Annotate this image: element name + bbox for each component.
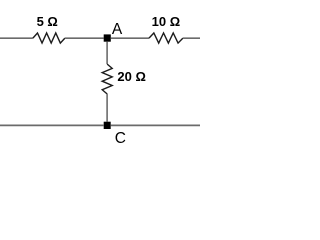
wire: node A down to R3 (106, 42, 108, 64)
resistor R3 20 ohm vertical zigzag (102, 64, 112, 94)
svg-text:5 Ω: 5 Ω (37, 14, 58, 29)
svg-text:20 Ω: 20 Ω (117, 69, 145, 84)
wire: top-left segment (0, 37, 33, 39)
wire: between R1 and node A (65, 37, 104, 39)
wire: R3 down to node C (106, 94, 108, 122)
svg-text:C: C (115, 130, 126, 147)
resistor R1 5 ohm zigzag (33, 33, 65, 43)
resistor R2 10 ohm zigzag (149, 33, 183, 43)
node C junction square (104, 122, 111, 129)
node A junction square (104, 34, 111, 41)
wire: bottom-left segment (0, 124, 104, 126)
wire: top-right segment (183, 37, 200, 39)
svg-text:A: A (112, 21, 123, 38)
wire: between node A and R2 (111, 37, 149, 39)
svg-text:10 Ω: 10 Ω (152, 14, 181, 29)
wire: bottom-right segment (111, 124, 200, 126)
